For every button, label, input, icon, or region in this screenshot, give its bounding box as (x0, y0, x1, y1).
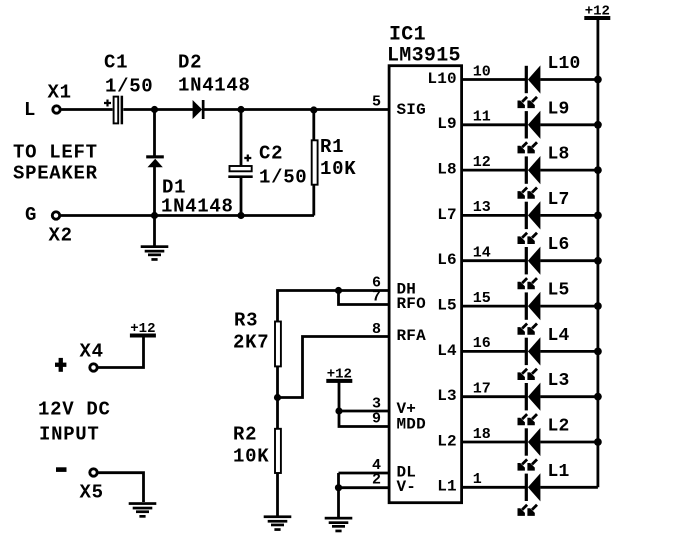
svg-text:13: 13 (473, 199, 491, 216)
diode D2 (193, 100, 205, 119)
svg-text:C1: C1 (104, 52, 128, 74)
svg-text:MDD: MDD (397, 416, 426, 434)
svg-text:R1: R1 (320, 136, 344, 158)
label R2 (233, 424, 257, 446)
node rail at L10 (594, 76, 602, 84)
node rail at L5 (594, 302, 602, 310)
label plus (55, 358, 66, 372)
label X4 (80, 341, 104, 363)
value C2 1/50 (259, 167, 307, 189)
wire IC pin 1 to L1 (461, 486, 526, 489)
svg-text:SPEAKER: SPEAKER (13, 163, 98, 185)
LED L3 (518, 383, 541, 426)
pin name L5 inside IC (437, 296, 457, 314)
ground at R2 (264, 515, 292, 531)
label R3 (234, 310, 258, 332)
svg-text:L9: L9 (437, 115, 457, 133)
svg-text:+12: +12 (585, 4, 610, 20)
svg-text:L10: L10 (427, 70, 456, 88)
node C2 bottom junction (237, 212, 244, 219)
wire C2 top lead (240, 110, 243, 166)
wire R3 bottom to R2 (276, 367, 279, 429)
svg-text:L3: L3 (437, 387, 457, 405)
pin number 18 (473, 426, 491, 443)
label SPEAKER (13, 163, 98, 185)
svg-text:+12: +12 (130, 321, 155, 337)
wire DL down to ground (337, 473, 340, 517)
pin name V- (397, 478, 417, 496)
svg-text:1: 1 (473, 471, 482, 488)
terminal X5 (90, 469, 97, 476)
svg-text:TO LEFT: TO LEFT (13, 142, 98, 164)
wire L7 to +12 rail (540, 214, 598, 217)
label 12V DC (38, 399, 111, 421)
label X5 (80, 482, 104, 504)
wire +12 to pins 3 and 9 (339, 383, 389, 427)
svg-text:X2: X2 (49, 225, 73, 247)
svg-text:10: 10 (473, 63, 491, 80)
label L5 (548, 281, 570, 301)
power +12 at X4 (130, 321, 156, 338)
wire X4 to +12 (98, 338, 143, 368)
svg-text:5: 5 (372, 94, 381, 111)
label L6 (548, 235, 570, 255)
label L1 (548, 462, 570, 482)
LED L5 (518, 292, 541, 335)
wire D1 cathode (153, 167, 156, 216)
LED L1 (518, 473, 541, 516)
svg-text:G: G (25, 204, 37, 226)
pin name L10 inside IC (427, 70, 456, 88)
pin number 5 (372, 94, 381, 111)
resistor R2 (275, 429, 281, 473)
wire L2 to +12 rail (540, 441, 598, 444)
svg-text:L5: L5 (437, 296, 457, 314)
wire IC pin 16 to L4 (461, 350, 526, 353)
svg-text:L7: L7 (437, 206, 457, 224)
svg-text:RFA: RFA (397, 327, 427, 345)
pin number 6 (372, 275, 381, 292)
svg-text:18: 18 (473, 426, 491, 443)
node rail at L8 (594, 166, 602, 174)
wire IC pin 14 to L6 (461, 259, 526, 262)
pin number 15 (473, 290, 491, 307)
pin number 13 (473, 199, 491, 216)
label L7 (548, 190, 570, 210)
value R2 10K (233, 446, 269, 468)
capacitor C2 (228, 155, 252, 179)
svg-text:1N4148: 1N4148 (178, 75, 251, 97)
pin number 16 (473, 335, 491, 352)
svg-text:15: 15 (473, 290, 491, 307)
value D2 1N4148 (178, 75, 251, 97)
svg-text:L10: L10 (548, 54, 581, 74)
pin name SIG (397, 101, 426, 119)
IC IC1 LM3915 (389, 66, 462, 503)
wire junction to pin 2 (339, 486, 390, 489)
svg-text:1/50: 1/50 (105, 76, 153, 98)
wire X5 to ground (98, 473, 143, 502)
svg-text:X4: X4 (80, 341, 104, 363)
wire junction to pin 7 (339, 291, 390, 305)
wire R1 top lead (312, 110, 315, 140)
pin number 9 (372, 411, 381, 428)
pin number 1 (473, 471, 482, 488)
node V+ junction (335, 407, 342, 414)
wire L10 to +12 rail (540, 78, 598, 81)
wire IC pin 17 to L3 (461, 395, 526, 398)
svg-text:D2: D2 (178, 52, 202, 74)
wire X1 to C1 (61, 108, 112, 111)
pin number 4 (372, 457, 381, 474)
svg-text:2K7: 2K7 (233, 332, 269, 354)
wire junction to pin 3 (339, 410, 389, 413)
svg-text:R3: R3 (234, 310, 258, 332)
svg-text:R2: R2 (233, 424, 257, 446)
label L9 (548, 99, 570, 119)
pin name L6 inside IC (437, 251, 457, 269)
node D1 top junction (151, 106, 158, 113)
svg-text:L8: L8 (437, 161, 457, 179)
pin number 7 (372, 289, 381, 306)
wire R2 to ground (276, 473, 279, 516)
wire C2 bottom lead (240, 178, 243, 216)
svg-text:X1: X1 (48, 82, 72, 104)
node C2 top junction (237, 106, 244, 113)
wire D2 to IC pin 5 (205, 108, 390, 111)
wire L4 to +12 rail (540, 350, 598, 353)
svg-text:L1: L1 (437, 478, 457, 496)
ground at X5 (129, 502, 157, 518)
wire C1 to D2 (123, 108, 193, 111)
label X1 (48, 82, 72, 104)
svg-text:L9: L9 (548, 99, 570, 119)
svg-text:12V DC: 12V DC (38, 399, 111, 421)
wire L9 to +12 rail (540, 123, 598, 126)
svg-text:SIG: SIG (397, 101, 426, 119)
label R1 (320, 136, 344, 158)
svg-text:L2: L2 (548, 416, 570, 436)
svg-text:L6: L6 (548, 235, 570, 255)
LED L2 (518, 428, 541, 471)
pin name V+ (397, 400, 417, 418)
label L2 (548, 416, 570, 436)
wire R3 top to pin 6 (278, 291, 390, 322)
pin number 17 (473, 380, 491, 397)
svg-text:L6: L6 (437, 251, 457, 269)
wire R1 bottom lead (312, 186, 315, 216)
wire +12 rail (597, 20, 600, 487)
label L10 (548, 54, 581, 74)
resistor R3 (275, 322, 281, 367)
wire L3 to +12 rail (540, 395, 598, 398)
node rail at L3 (594, 393, 602, 401)
svg-text:LM3915: LM3915 (387, 45, 461, 68)
node R1 top junction (310, 106, 317, 113)
LED L6 (518, 247, 541, 290)
label INPUT (39, 424, 100, 446)
LED L8 (518, 156, 541, 199)
svg-text:V-: V- (397, 478, 417, 496)
pin name L7 inside IC (437, 206, 457, 224)
svg-text:11: 11 (473, 109, 491, 126)
pin number 3 (372, 396, 381, 413)
svg-text:C2: C2 (259, 143, 283, 165)
pin name RFO (397, 295, 427, 313)
ground at D1 (141, 245, 169, 261)
wire D1 anode (153, 110, 156, 156)
svg-text:17: 17 (473, 380, 491, 397)
label C2 (259, 143, 283, 165)
wire D1 junction to ground (153, 216, 156, 246)
svg-text:L8: L8 (548, 145, 570, 165)
capacitor C1 (104, 96, 123, 125)
svg-text:9: 9 (372, 411, 381, 428)
LED L7 (518, 201, 541, 244)
svg-text:1/50: 1/50 (259, 167, 307, 189)
svg-text:16: 16 (473, 335, 491, 352)
pin name L9 inside IC (437, 115, 457, 133)
node R3 R2 junction (274, 394, 281, 401)
svg-text:10K: 10K (320, 158, 356, 180)
terminal X4 (90, 364, 97, 371)
value R1 10K (320, 158, 356, 180)
pin name L2 inside IC (437, 432, 457, 450)
label L8 (548, 145, 570, 165)
wire IC pin 11 to L9 (461, 123, 526, 126)
terminal X2 (52, 212, 59, 219)
node D1 bottom junction (151, 212, 158, 219)
wire X2 to R1 bottom (61, 214, 314, 217)
pin number 12 (473, 154, 491, 171)
svg-text:L5: L5 (548, 281, 570, 301)
pin name DL (397, 464, 417, 482)
LED L4 (518, 337, 541, 380)
node rail at L6 (594, 257, 602, 265)
svg-text:INPUT: INPUT (39, 424, 100, 446)
label C1 (104, 52, 128, 74)
svg-text:14: 14 (473, 245, 491, 262)
svg-text:L: L (24, 99, 36, 121)
pin name DH (397, 281, 417, 299)
wire IC pin 15 to L5 (461, 305, 526, 308)
svg-text:L3: L3 (548, 371, 570, 391)
svg-text:IC1: IC1 (389, 24, 426, 47)
pin name L8 inside IC (437, 161, 457, 179)
node rail at L9 (594, 121, 602, 129)
pin number 11 (473, 109, 491, 126)
label D1 (162, 177, 186, 199)
pin name L3 inside IC (437, 387, 457, 405)
label D2 (178, 52, 202, 74)
wire junction to pin 8 (278, 337, 390, 398)
LED L9 (518, 111, 541, 154)
pin name MDD (397, 416, 426, 434)
wire IC pin 10 to L10 (461, 78, 526, 81)
resistor R1 (312, 140, 318, 184)
pin name RFA (397, 327, 427, 345)
pin number 2 (372, 472, 381, 489)
diode D1 (146, 155, 164, 167)
terminal X1 (53, 106, 60, 113)
svg-text:L1: L1 (548, 462, 570, 482)
wire IC pin 18 to L2 (461, 441, 526, 444)
power +12 at V+ (326, 366, 352, 383)
label TO LEFT (13, 142, 98, 164)
label X2 (49, 225, 73, 247)
node rail at L7 (594, 212, 602, 220)
value R3 2K7 (233, 332, 269, 354)
node pin6 pin7 junction (335, 287, 342, 294)
node rail at L4 (594, 347, 602, 355)
node V- junction (335, 484, 342, 491)
svg-text:12: 12 (473, 154, 491, 171)
svg-text:10K: 10K (233, 446, 269, 468)
label L (24, 99, 36, 121)
value C1 1/50 (105, 76, 153, 98)
value D1 1N4148 (161, 196, 234, 218)
power +12 rail top (584, 4, 610, 21)
wire pin 4 DL (339, 472, 390, 475)
label L3 (548, 371, 570, 391)
label L4 (548, 326, 570, 346)
wire L1 to +12 rail (540, 486, 598, 489)
svg-text:+12: +12 (327, 366, 352, 382)
svg-text:L4: L4 (548, 326, 570, 346)
pin number 14 (473, 245, 491, 262)
pin name L1 inside IC (437, 478, 457, 496)
label G (25, 204, 37, 226)
pin name L4 inside IC (437, 342, 457, 360)
pin number 8 (372, 321, 381, 338)
ground at V- (325, 517, 353, 533)
node rail at L2 (594, 438, 602, 446)
value LM3915 (387, 45, 461, 68)
wire L5 to +12 rail (540, 305, 598, 308)
wire IC pin 13 to L7 (461, 214, 526, 217)
wire IC pin 12 to L8 (461, 169, 526, 172)
svg-text:RFO: RFO (397, 295, 427, 313)
pin number 10 (473, 63, 491, 80)
wire L8 to +12 rail (540, 169, 598, 172)
wire L6 to +12 rail (540, 259, 598, 262)
label IC1 (389, 24, 426, 47)
svg-text:L2: L2 (437, 432, 457, 450)
svg-text:L4: L4 (437, 342, 457, 360)
svg-text:L7: L7 (548, 190, 570, 210)
label minus (56, 467, 67, 472)
svg-text:X5: X5 (80, 482, 104, 504)
LED L10 (518, 65, 541, 108)
